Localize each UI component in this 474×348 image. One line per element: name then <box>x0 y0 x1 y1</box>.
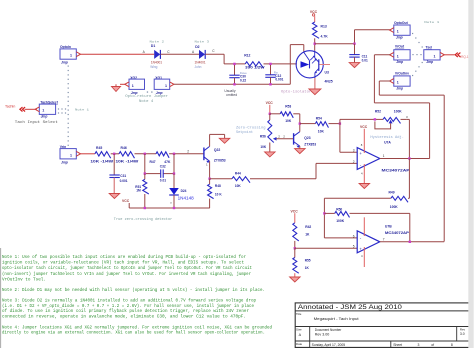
svg-text:Document Number: Document Number <box>315 328 342 332</box>
junction <box>353 43 355 45</box>
transistor Q23 <box>293 133 295 144</box>
svg-text:0.01: 0.01 <box>362 59 368 63</box>
junction <box>269 63 271 65</box>
svg-text:C32: C32 <box>160 164 166 168</box>
resistor R54 <box>300 123 316 125</box>
svg-text:C31: C31 <box>120 174 126 178</box>
svg-text:Date: Date <box>296 342 302 346</box>
svg-text:Jmp: Jmp <box>426 60 433 64</box>
svg-text:1: 1 <box>70 153 72 157</box>
svg-text:5: 5 <box>353 245 355 249</box>
ground (C11) <box>349 63 360 68</box>
resistor R47 <box>156 152 169 158</box>
svg-text:ZTX853: ZTX853 <box>214 158 226 162</box>
svg-text:2: 2 <box>353 160 355 164</box>
junction <box>144 153 146 155</box>
ground (R55) <box>290 277 301 282</box>
svg-text:3.0: 3.0 <box>460 332 465 336</box>
svg-text:R50: R50 <box>336 207 342 211</box>
svg-text:Title: Title <box>296 312 302 316</box>
node IRQ-1 <box>444 54 454 56</box>
svg-text:Tsel: Tsel <box>426 45 433 49</box>
wire <box>25 108 37 110</box>
svg-text:MC34072AP: MC34072AP <box>385 231 410 235</box>
svg-text:R54: R54 <box>316 117 322 121</box>
svg-text:R48: R48 <box>215 184 221 188</box>
svg-text:Size: Size <box>296 327 302 331</box>
wire (U7B pwr stubs) <box>363 217 365 236</box>
wire <box>169 153 204 155</box>
svg-text:390 1/2W: 390 1/2W <box>245 65 264 69</box>
wire <box>111 153 119 155</box>
svg-text:VCC: VCC <box>122 199 130 203</box>
svg-text:MC34072AP: MC34072AP <box>382 169 411 173</box>
svg-text:R12: R12 <box>244 53 250 57</box>
wire <box>129 207 210 209</box>
svg-text:Sheet: Sheet <box>393 343 402 347</box>
wire (dotted select line) <box>68 66 69 67</box>
svg-text:Tach Input Select: Tach Input Select <box>15 120 58 125</box>
wire (scrollbar strip) <box>468 0 473 348</box>
svg-text:Q23: Q23 <box>304 136 310 140</box>
wire <box>408 119 410 158</box>
wire <box>224 63 245 65</box>
svg-text:U7B: U7B <box>385 224 392 228</box>
wire <box>380 158 430 160</box>
svg-text:10 K: 10 K <box>215 193 222 197</box>
svg-text:R55: R55 <box>305 259 311 263</box>
svg-text:100K: 100K <box>336 219 345 223</box>
svg-text:Rev: Rev <box>460 327 466 331</box>
svg-text:R47: R47 <box>150 160 156 164</box>
svg-text:opto-isolator tach circuit, ju: opto-isolator tach circuit, jumper TachS… <box>2 266 252 271</box>
svg-text:R56: R56 <box>260 135 266 139</box>
wire <box>205 53 224 55</box>
ground (Q23) <box>295 149 306 154</box>
diode D24 <box>173 174 175 188</box>
svg-text:6: 6 <box>353 234 355 238</box>
wire <box>289 45 291 85</box>
svg-text:Sunday, April 17, 2005: Sunday, April 17, 2005 <box>312 343 346 347</box>
svg-text:4.7K: 4.7K <box>321 35 329 39</box>
potentiometer R56 <box>269 114 271 120</box>
svg-text:3: 3 <box>353 149 355 153</box>
wire <box>409 213 411 241</box>
junction <box>323 212 325 214</box>
capacitor C11 <box>354 44 356 55</box>
wire <box>135 153 157 155</box>
svg-text:3: 3 <box>418 343 420 347</box>
svg-text:10K: 10K <box>260 145 267 149</box>
wire <box>299 146 301 149</box>
wire <box>299 114 301 132</box>
svg-text:ZTX853: ZTX853 <box>304 143 316 147</box>
capacitor C31 <box>113 154 115 175</box>
wire <box>209 134 211 146</box>
resistor R44 <box>210 178 232 180</box>
svg-text:VCC: VCC <box>360 125 368 129</box>
junction <box>113 153 115 155</box>
wire <box>250 178 316 180</box>
svg-text:Jmp: Jmp <box>61 61 68 65</box>
svg-text:7: 7 <box>383 238 385 242</box>
junction <box>269 83 271 85</box>
ground (XG2) <box>120 83 125 85</box>
svg-text:1: 1 <box>383 154 385 158</box>
svg-text:Jmp: Jmp <box>61 160 68 164</box>
junction <box>233 83 235 85</box>
svg-text:(i.e. D1 + D2 + VF_opto_diode: (i.e. D1 + D2 + VF_opto_diode = 0.7 + 0.… <box>2 304 254 309</box>
svg-text:1: 1 <box>397 81 399 85</box>
ground (C31) <box>109 194 120 199</box>
svg-text:1N4001: 1N4001 <box>195 60 206 64</box>
transistor Q22 <box>203 148 205 161</box>
svg-text:Zero-Crossing: Zero-Crossing <box>236 126 266 130</box>
svg-text:Wlng: Wlng <box>150 65 157 69</box>
resistor R49 <box>324 197 391 199</box>
svg-text:10K: 10K <box>285 119 292 123</box>
op-amp U7A <box>357 148 380 170</box>
svg-text:Annotated - JSM 25 Aug 2010: Annotated - JSM 25 Aug 2010 <box>298 304 403 311</box>
svg-text:Note 3: Diode D2 is normally a: Note 3: Diode D2 is normally a 1N4001 in… <box>2 299 256 304</box>
pin 6 stub (U3 base) <box>320 64 331 66</box>
capacitor C30 <box>234 65 236 75</box>
svg-text:of: of <box>431 343 434 347</box>
svg-text:1N4001: 1N4001 <box>151 60 162 64</box>
svg-text:8: 8 <box>451 343 453 347</box>
resistor R13 <box>313 22 320 38</box>
svg-text:4N25: 4N25 <box>325 80 333 84</box>
svg-text:47K: 47K <box>164 160 171 164</box>
junction <box>374 118 376 120</box>
wire <box>380 241 444 243</box>
wire (C32 loop) <box>144 154 146 174</box>
svg-text:R52: R52 <box>375 110 381 114</box>
svg-text:VrOutInv to Tsel.: VrOutInv to Tsel. <box>2 277 46 282</box>
svg-text:Hysteresis Adj.: Hysteresis Adj. <box>370 135 404 139</box>
svg-text:10K -1/4W: 10K -1/4W <box>90 160 113 164</box>
svg-text:0.001: 0.001 <box>275 77 283 81</box>
svg-text:John: John <box>195 65 202 69</box>
wire (page border left) <box>0 248 2 348</box>
svg-text:R49: R49 <box>389 191 395 195</box>
wire <box>315 43 355 45</box>
wire (U7A + node) <box>339 119 341 152</box>
resistor R51 <box>143 179 149 194</box>
junction <box>339 122 341 124</box>
svg-text:1: 1 <box>132 84 134 88</box>
svg-text:Setpoint: Setpoint <box>236 130 253 134</box>
junction <box>269 113 271 115</box>
svg-text:True zero-crossing detector: True zero-crossing detector <box>114 217 173 221</box>
resistor R53 <box>270 113 280 115</box>
svg-text:D2: D2 <box>195 45 199 49</box>
junction <box>173 207 175 209</box>
svg-text:VrOut: VrOut <box>395 45 405 49</box>
wire <box>160 53 199 55</box>
wire (dotted select) <box>412 75 413 76</box>
ground (Q22 collector) <box>219 138 230 143</box>
junction <box>173 153 175 155</box>
ground (U7A) <box>359 184 370 189</box>
junction <box>294 247 296 249</box>
wire <box>408 159 410 199</box>
svg-text:1: 1 <box>42 109 44 113</box>
wire <box>81 153 95 155</box>
svg-text:1: 1 <box>165 84 167 88</box>
ground (U3 emitter) <box>309 89 321 95</box>
wire <box>314 78 316 89</box>
svg-text:Jmp: Jmp <box>41 115 48 119</box>
svg-text:Rev 3.00: Rev 3.00 <box>315 333 330 337</box>
wire <box>324 237 357 239</box>
capacitor C32 <box>160 169 162 177</box>
junction <box>208 178 210 180</box>
wire (dots between XG) <box>147 91 148 92</box>
wire <box>363 164 365 184</box>
wire <box>209 161 211 178</box>
svg-text:omitted: omitted <box>226 93 237 97</box>
svg-text:R53: R53 <box>285 105 291 109</box>
svg-text:1N4148: 1N4148 <box>178 195 195 200</box>
svg-text:Note 1: Use of two possible ta: Note 1: Use of two possible tach input o… <box>2 255 246 260</box>
svg-text:Jmp: Jmp <box>396 60 403 64</box>
svg-text:Q22: Q22 <box>214 148 221 152</box>
wire (VrOut to U7A out) <box>374 54 390 56</box>
svg-text:10K -1/4W: 10K -1/4W <box>116 160 139 164</box>
svg-text:connected in reverse, operate: connected in reverse, operate in avalanc… <box>2 314 246 319</box>
svg-text:10K: 10K <box>235 184 242 188</box>
svg-text:of diode. To use in ignition c: of diode. To use in ignition coil primar… <box>2 309 249 314</box>
wire <box>264 63 297 65</box>
svg-text:R13: R13 <box>321 24 327 28</box>
svg-text:ignition coils, or variable-re: ignition coils, or variable-reluctance (… <box>2 261 244 266</box>
svg-text:Note 3: Note 3 <box>195 40 210 43</box>
opto-isolator U3 <box>296 51 323 78</box>
svg-text:VCC: VCC <box>266 101 274 105</box>
svg-text:IRQ-1: IRQ-1 <box>460 55 469 59</box>
svg-text:Opto-isolator: Opto-isolator <box>281 89 311 93</box>
svg-text:VCC: VCC <box>310 10 318 14</box>
svg-text:TachIn: TachIn <box>5 105 15 109</box>
wire (dotted select) <box>412 54 413 55</box>
svg-text:D1: D1 <box>151 44 155 48</box>
svg-text:(non-invert) jumper TachSelect: (non-invert) jumper TachSelect to VrIn a… <box>2 272 251 277</box>
wire <box>81 53 155 55</box>
capacitor C12 <box>270 65 272 75</box>
junction <box>408 157 410 159</box>
svg-text:R46: R46 <box>121 146 127 150</box>
svg-text:1K: 1K <box>305 233 310 237</box>
wire <box>295 247 357 249</box>
title block <box>295 303 470 348</box>
svg-text:Note 4: Note 4 <box>139 99 153 103</box>
svg-text:Opto-return Jumper: Opto-return Jumper <box>125 94 168 98</box>
svg-text:1: 1 <box>397 54 399 58</box>
wire <box>314 38 316 50</box>
junction <box>144 207 146 209</box>
svg-text:R44: R44 <box>235 172 241 176</box>
svg-text:OptoIn: OptoIn <box>60 45 71 49</box>
wire (VrOutInv to U7B out) <box>379 80 390 82</box>
junction <box>144 172 146 174</box>
resistor R48 <box>209 179 211 185</box>
svg-text:1: 1 <box>434 54 436 58</box>
op-amp U7B <box>357 231 380 253</box>
junction <box>409 241 411 243</box>
junction <box>299 122 301 124</box>
svg-text:directly to engine via an exte: directly to engine via an external conne… <box>2 331 265 336</box>
svg-text:1: 1 <box>397 30 399 34</box>
svg-text:VrOutInv: VrOutInv <box>395 72 409 76</box>
svg-text:0.01: 0.01 <box>160 179 166 183</box>
svg-text:10K: 10K <box>318 129 325 133</box>
svg-text:Note 1: Note 1 <box>424 21 439 24</box>
svg-text:R45: R45 <box>96 146 102 150</box>
wire <box>323 198 325 238</box>
svg-text:2: 2 <box>187 149 189 153</box>
svg-text:Note 1: Note 1 <box>75 109 89 112</box>
svg-text:1: 1 <box>70 54 72 58</box>
resistor R55 <box>294 248 296 257</box>
wire (dotted select) <box>412 33 413 34</box>
svg-text:Jmp: Jmp <box>396 86 403 90</box>
svg-text:0.001: 0.001 <box>120 179 128 183</box>
svg-text:Note 2: Diode D1 may not be ne: Note 2: Diode D1 may not be needed with … <box>2 288 265 293</box>
ground (R56) <box>265 152 276 157</box>
resistor R42 <box>293 223 299 241</box>
junction <box>173 172 175 174</box>
svg-text:100K: 100K <box>390 205 399 209</box>
svg-text:0.22: 0.22 <box>240 78 246 82</box>
svg-text:1M: 1M <box>136 189 141 193</box>
junction <box>314 43 316 45</box>
svg-text:R42: R42 <box>305 225 311 229</box>
svg-text:D24: D24 <box>181 189 187 193</box>
svg-text:U3: U3 <box>325 70 329 74</box>
svg-text:1K: 1K <box>305 266 310 270</box>
svg-text:Megasquirt - Tach Input: Megasquirt - Tach Input <box>314 317 359 321</box>
junction <box>233 63 235 65</box>
wire <box>174 83 290 85</box>
svg-text:Note 2: Note 2 <box>150 40 165 43</box>
svg-text:VCC: VCC <box>291 209 299 213</box>
svg-text:U7A: U7A <box>384 141 391 145</box>
svg-text:Jmp: Jmp <box>396 35 403 39</box>
svg-text:Note 4: Jumper locations XG1 a: Note 4: Jumper locations XG1 and XG2 nor… <box>2 325 272 330</box>
svg-text:100K: 100K <box>394 110 403 114</box>
